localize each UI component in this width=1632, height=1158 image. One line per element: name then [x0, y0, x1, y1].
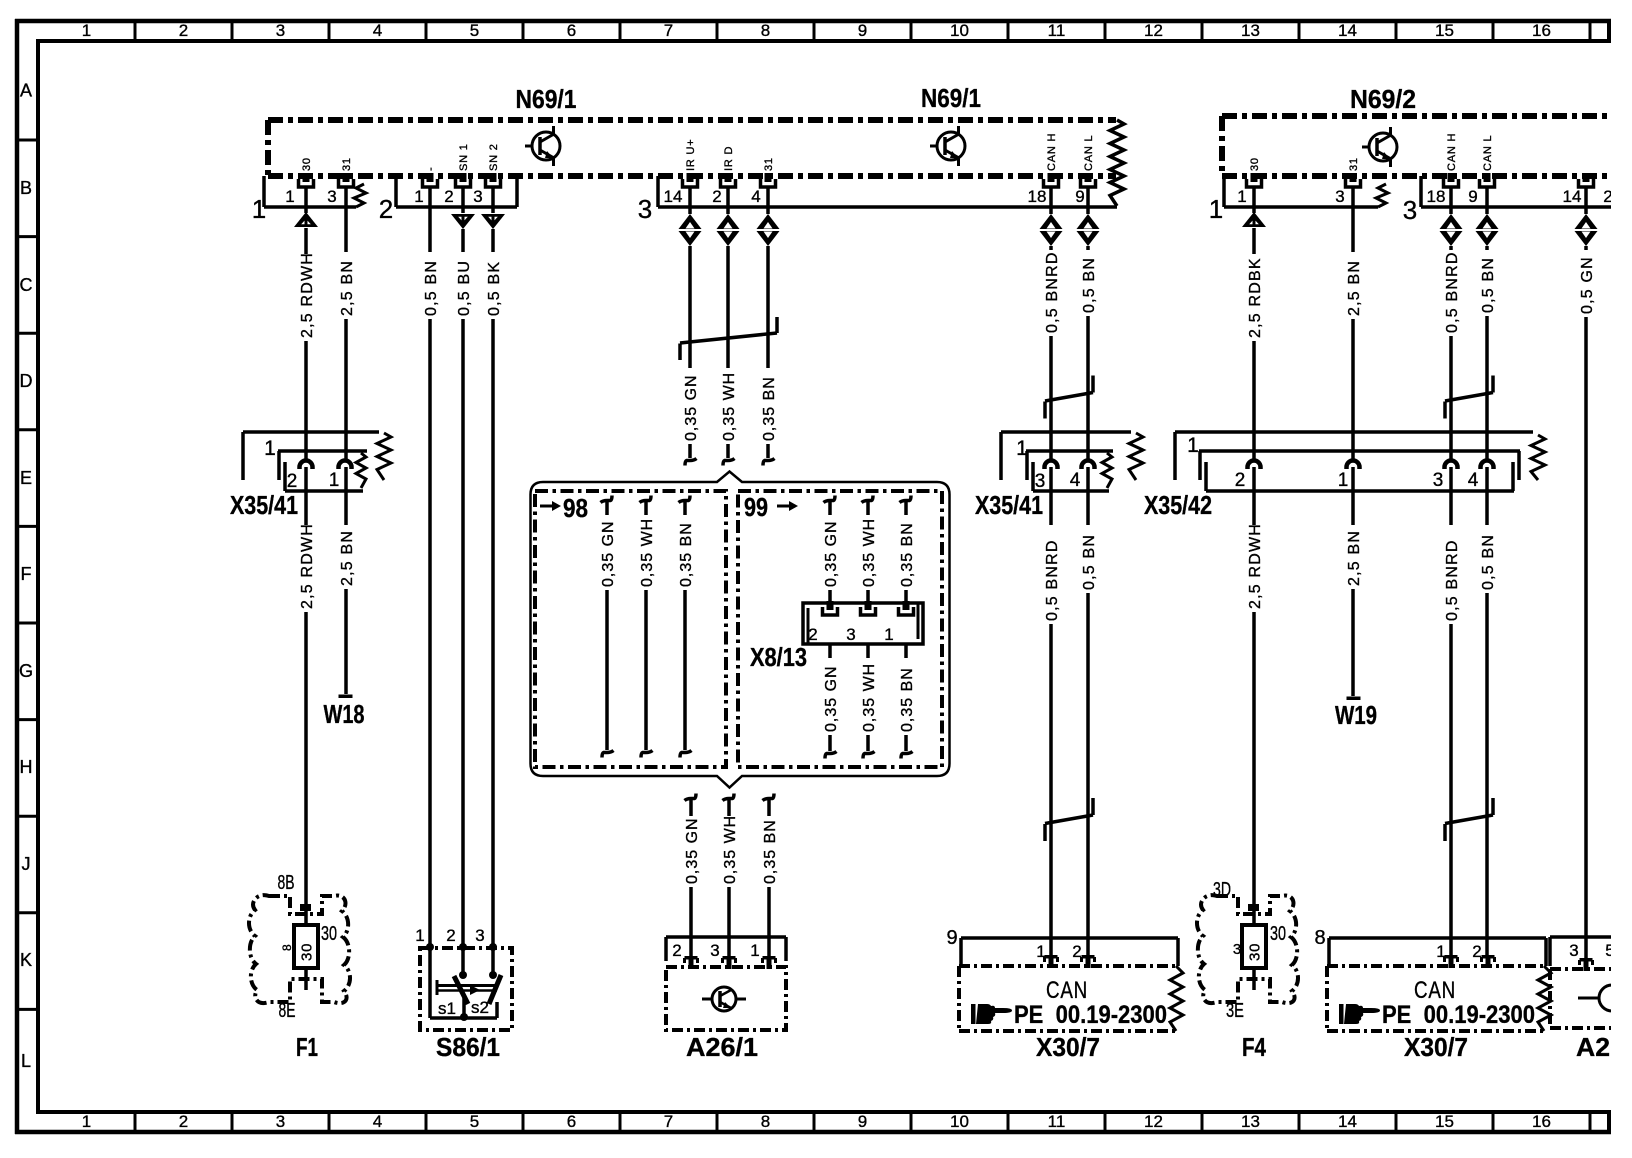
svg-text:2,5 RDWH: 2,5 RDWH — [299, 252, 316, 338]
svg-text:11: 11 — [1048, 1112, 1066, 1131]
svg-text:2,5 RDWH: 2,5 RDWH — [1247, 523, 1264, 609]
svg-text:CAN: CAN — [1414, 977, 1456, 1004]
svg-text:14: 14 — [1338, 1112, 1357, 1131]
svg-text:12: 12 — [1144, 21, 1163, 40]
svg-text:1: 1 — [1209, 194, 1223, 224]
fuse F4 holder (dash-dot cartouche) — [1197, 895, 1298, 1003]
double plug symbol on CAN wire x=1051 — [1040, 214, 1063, 229]
pin hook 2 of X35/41 — [300, 461, 313, 470]
svg-text:14: 14 — [664, 187, 683, 206]
double plug symbol on CAN wire x=1088 — [1077, 214, 1100, 229]
pin terminal SN 1 of N69/1 connector 2 — [460, 173, 467, 182]
wire 0,35 GN from connector 99 to A26/1 — [685, 794, 697, 801]
wire 0,5 BNRD from X35/42 to X30/7 (right) — [1449, 467, 1453, 525]
svg-text:5: 5 — [470, 1112, 479, 1131]
wire 0,5 BN from N69/1 connector 2 pin 1 to S86/1 — [428, 187, 432, 252]
pin 1 of X30/7 left — [1045, 955, 1058, 959]
connector block X35/41 (right) outer bracket — [1001, 432, 1131, 480]
svg-text:0,5 BN: 0,5 BN — [423, 260, 440, 316]
pin 2 of X8/13 — [827, 601, 834, 610]
svg-text:0,35 BN: 0,35 BN — [678, 522, 695, 587]
svg-text:6: 6 — [567, 1112, 576, 1131]
svg-text:1: 1 — [264, 437, 276, 460]
double plug symbol on IR wire x=728 — [717, 214, 740, 229]
svg-text:2: 2 — [808, 625, 817, 644]
svg-text:1: 1 — [1237, 187, 1246, 206]
junction dot bottom — [460, 1013, 468, 1021]
svg-text:9: 9 — [858, 21, 867, 40]
svg-text:F1: F1 — [296, 1032, 318, 1062]
svg-text:18: 18 — [1427, 187, 1446, 206]
svg-text:L: L — [21, 1051, 31, 1071]
loudspeaker symbol inside A2 (clipped) — [1578, 985, 1625, 1011]
wire 0,35 WH from N69/1 pin 2 to connector 98 — [726, 187, 730, 214]
sleeve arrow on wire 30 (N69/2) — [1242, 212, 1266, 227]
svg-text:CAN H: CAN H — [1046, 133, 1058, 171]
svg-text:0,35 BN: 0,35 BN — [761, 376, 778, 441]
wire 0,5 GN from N69/2 pin 14 to A2 — [1584, 187, 1588, 214]
svg-text:10: 10 — [950, 21, 969, 40]
svg-text:2: 2 — [179, 1112, 188, 1131]
wire 0,35 WH inside connector 98 — [640, 496, 652, 503]
wire 0,35 WH from connector 99 to A26/1 — [723, 794, 735, 801]
svg-text:2: 2 — [379, 194, 393, 224]
twisted-pair jog above X35/42 — [1445, 393, 1493, 402]
svg-text:0,35 WH: 0,35 WH — [722, 815, 739, 884]
pin hook 3 of X35/42 — [1445, 461, 1458, 470]
pin 3 of X8/13 — [865, 601, 872, 610]
pin terminal 30 of N69/1 — [303, 173, 310, 182]
svg-text:4: 4 — [751, 187, 760, 206]
fuse F4 element — [1242, 911, 1266, 990]
svg-text:0,35 WH: 0,35 WH — [639, 518, 656, 587]
svg-text:3: 3 — [710, 941, 719, 960]
svg-text:9: 9 — [1468, 187, 1477, 206]
connector 99 box (dash-dot) — [738, 491, 942, 767]
connector 98 box (dash-dot) — [535, 491, 726, 767]
svg-text:2,5 RDWH: 2,5 RDWH — [299, 523, 316, 609]
double plug symbol on IR wire x=768 — [757, 214, 780, 229]
svg-text:3: 3 — [276, 21, 285, 40]
pin 2 of A26/1 — [685, 956, 698, 960]
wire 0,5 BN from N69/2 pin 9 to X35/42 — [1485, 187, 1489, 214]
svg-text:PE 00.19-2300: PE 00.19-2300 — [1014, 1001, 1167, 1029]
svg-text:A2: A2 — [1576, 1032, 1610, 1062]
pin hook 1 of X35/42 — [1347, 461, 1360, 470]
connector 98/99 outer contour with pass-through peaks — [531, 472, 950, 788]
pin hook 4 of X35/41 right — [1082, 461, 1095, 470]
svg-text:14: 14 — [1563, 187, 1582, 206]
wire 2,5 RDWH from X35/41 to fuse F1 — [304, 467, 308, 525]
socket arrows on wires SN1, SN2 — [451, 214, 475, 229]
svg-text:0,5 BK: 0,5 BK — [486, 261, 503, 316]
svg-text:16: 16 — [1532, 21, 1551, 40]
svg-text:X30/7: X30/7 — [1404, 1032, 1468, 1062]
svg-text:4: 4 — [1468, 470, 1479, 491]
svg-text:3: 3 — [846, 625, 855, 644]
coil at X35/41 outer bracket — [377, 433, 391, 480]
svg-text:0,5 BN: 0,5 BN — [1081, 534, 1098, 590]
svg-text:4: 4 — [373, 21, 382, 40]
svg-text:0,35 GN: 0,35 GN — [823, 520, 840, 587]
svg-text:PE 00.19-2300: PE 00.19-2300 — [1382, 1001, 1535, 1029]
svg-text:8E: 8E — [279, 1000, 296, 1022]
svg-text:0,5 BN: 0,5 BN — [1480, 534, 1497, 590]
wire 0,35 BN from connector 99 to A26/1 — [763, 794, 775, 801]
coil inside X35/41 right housing — [1102, 453, 1112, 488]
svg-text:1: 1 — [1338, 470, 1349, 491]
svg-text:H: H — [20, 757, 33, 777]
svg-text:2,5 RDBK: 2,5 RDBK — [1247, 257, 1264, 338]
control unit N69/2 box (dash-dot outline) — [1222, 116, 1615, 176]
pin terminal SN 2 of N69/1 connector 2 — [490, 173, 497, 182]
svg-text:3: 3 — [1335, 187, 1344, 206]
svg-text:N69/1: N69/1 — [516, 84, 577, 114]
svg-text:0,35 GN: 0,35 GN — [684, 817, 701, 884]
svg-text:3: 3 — [475, 926, 484, 945]
labels s1 s2 — [438, 998, 489, 1018]
wire 0,35 BN below X8/13 — [904, 644, 908, 658]
switch S86/1 box (dash-dot) — [420, 948, 512, 1030]
svg-text:2: 2 — [1235, 470, 1246, 491]
svg-text:15: 15 — [1435, 1112, 1454, 1131]
svg-text:3: 3 — [638, 194, 652, 224]
transistor symbol inside N69/2 — [1369, 133, 1397, 161]
svg-text:E: E — [20, 468, 32, 488]
connector 2 of N69/1 (pins 1,2,3) — [379, 176, 517, 224]
svg-text:3: 3 — [1433, 470, 1444, 491]
pin terminal 30 of N69/2 — [1251, 173, 1258, 182]
pin hook 3 of X35/41 right — [1045, 461, 1058, 470]
wire 0,5 BU from N69/1 connector 2 pin 2 to S86/1 — [461, 187, 465, 213]
svg-text:31: 31 — [341, 157, 353, 171]
coil at N69/2 connector 1 right end — [1376, 184, 1388, 207]
pin terminal CAN H of N69/2 — [1448, 173, 1455, 182]
svg-text:30: 30 — [321, 923, 337, 945]
svg-text:2: 2 — [444, 187, 453, 206]
switch blade s1 — [454, 976, 468, 1004]
wire 2,5 BN from X35/41 to ground W18 — [344, 467, 348, 525]
twisted-pair jog on IR wires — [680, 333, 777, 343]
N69/1 right boundary coil (wavy edge) — [1110, 120, 1124, 206]
pin terminal CAN H of N69/1 — [1048, 173, 1055, 182]
svg-text:D: D — [20, 371, 33, 391]
svg-text:14: 14 — [1338, 21, 1357, 40]
svg-text:F: F — [21, 564, 32, 584]
coil at connector 1 right end — [354, 184, 366, 207]
svg-text:s2: s2 — [471, 998, 489, 1017]
svg-text:9: 9 — [858, 1112, 867, 1131]
coil at X35/41 right outer bracket — [1129, 433, 1143, 480]
switch blade s2 — [489, 975, 501, 1004]
svg-text:CAN L: CAN L — [1083, 135, 1095, 171]
junction dot blade s1 — [459, 971, 467, 979]
svg-text:12: 12 — [1144, 1112, 1163, 1131]
svg-text:18: 18 — [1028, 187, 1047, 206]
svg-text:6: 6 — [567, 21, 576, 40]
svg-text:0,35 WH: 0,35 WH — [721, 372, 738, 441]
pin terminal CAN L of N69/2 — [1484, 173, 1491, 182]
svg-text:B: B — [20, 178, 32, 198]
svg-text:A26/1: A26/1 — [686, 1032, 758, 1062]
svg-text:1: 1 — [414, 187, 423, 206]
pin 3 of A26/1 — [723, 956, 736, 960]
svg-text:1: 1 — [82, 1112, 91, 1131]
pin 2 of X30/7 right — [1482, 955, 1495, 959]
connector bracket X30/7 right, pin row 8 — [1314, 927, 1546, 966]
svg-text:30: 30 — [1249, 157, 1261, 171]
svg-text:16: 16 — [1532, 1112, 1551, 1131]
svg-text:30: 30 — [301, 157, 313, 171]
svg-text:N69/1: N69/1 — [921, 83, 981, 113]
svg-text:11: 11 — [1048, 21, 1066, 40]
pin hook 2 of X35/42 — [1248, 461, 1261, 470]
component A2 box (dash-dot, clipped) — [1550, 969, 1615, 1028]
svg-text:10: 10 — [950, 1112, 969, 1131]
S86/1 internal wiring and contact bus — [430, 948, 497, 1018]
double plug symbol on N69/2 wire x=1451 — [1440, 214, 1463, 229]
svg-text:0,5 BN: 0,5 BN — [1480, 257, 1497, 313]
junction dot pin 1 — [426, 943, 434, 951]
svg-text:N69/2: N69/2 — [1350, 84, 1416, 114]
fuse F4 top contact tab — [1248, 904, 1259, 911]
svg-text:4: 4 — [1070, 470, 1081, 491]
connector 1 of N69/1 (pins 1,3) — [252, 176, 356, 224]
pin 1 of X30/7 right — [1445, 955, 1458, 959]
wire 0,5 BN from X35/41 to X30/7 — [1086, 467, 1090, 525]
svg-text:1: 1 — [1187, 434, 1199, 457]
connector 1 of N69/2 (pins 1,3) — [1209, 176, 1378, 224]
svg-text:8: 8 — [280, 944, 294, 951]
fuse F1 element — [294, 911, 318, 990]
svg-text:31: 31 — [763, 157, 775, 171]
svg-text:8: 8 — [761, 21, 770, 40]
wire 0,5 BN from X35/42 to X30/7 (right) — [1485, 467, 1489, 525]
connector X8/13 housing — [803, 603, 923, 644]
twisted-pair jog above X35/41 — [1045, 393, 1093, 402]
pin 3 of A2 — [1580, 958, 1593, 962]
svg-text:S86/1: S86/1 — [436, 1032, 500, 1062]
svg-text:2,5 BN: 2,5 BN — [339, 260, 356, 316]
svg-text:X35/42: X35/42 — [1144, 490, 1212, 520]
svg-text:3D: 3D — [1213, 879, 1231, 901]
svg-text:0,35 WH: 0,35 WH — [861, 663, 878, 732]
pin terminal 31 of N69/1 connector 3 — [765, 173, 772, 182]
wire 0,35 WH inside connector 99 to X8/13 — [862, 496, 874, 503]
connector bracket X30/7 left, pin row 9 — [946, 927, 1178, 966]
svg-text:31: 31 — [1348, 157, 1360, 171]
svg-text:2,5 BN: 2,5 BN — [1346, 530, 1363, 586]
arrow out of connector 99 — [777, 505, 789, 508]
svg-text:CAN L: CAN L — [1482, 135, 1494, 171]
arrow into connector 98 — [540, 505, 552, 508]
svg-text:0,5 BNRD: 0,5 BNRD — [1444, 251, 1461, 333]
svg-text:0,5 GN: 0,5 GN — [1579, 256, 1596, 314]
wavy right edge of X30/7 left — [1170, 966, 1183, 1031]
pin terminal 31 of N69/2 — [1350, 173, 1357, 182]
component A26/1 box (dash-dot) — [666, 967, 786, 1030]
svg-text:0,5 BU: 0,5 BU — [456, 260, 473, 316]
svg-text:C: C — [20, 275, 33, 295]
svg-text:J: J — [22, 854, 31, 874]
svg-text:W19: W19 — [1335, 700, 1377, 730]
double plug symbol on IR wire x=690 — [679, 214, 702, 229]
wavy right edge of X30/7 right — [1538, 966, 1551, 1031]
pin 1 of A26/1 — [763, 956, 776, 960]
connector 3 of N69/1 (pins 14,2,4 and 18,9) — [638, 176, 1117, 224]
connector block X35/42 housing with pins 2,1,3,4 — [1199, 451, 1520, 491]
junction dot blade s2 — [489, 971, 497, 979]
svg-text:CAN H: CAN H — [1446, 133, 1458, 171]
svg-text:1: 1 — [329, 470, 340, 491]
connector block X35/41 (right) housing with pins 3,4 — [1026, 451, 1113, 492]
svg-text:K: K — [20, 950, 32, 970]
pin terminal CAN L of N69/1 — [1085, 173, 1092, 182]
svg-text:1: 1 — [82, 21, 91, 40]
fuse F1 holder (dash-dot cartouche) — [249, 895, 350, 1003]
wire 0,5 BNRD from X35/41 to X30/7 — [1049, 467, 1053, 525]
svg-text:SN 2: SN 2 — [488, 143, 500, 171]
transistor symbol inside N69/1 (left) — [532, 132, 560, 160]
wire 0,35 WH below X8/13 — [866, 644, 870, 658]
S86/1 pin numbers 1,2,3 — [415, 926, 484, 945]
pointing hand icon (left box) — [971, 1004, 1012, 1024]
svg-text:3: 3 — [473, 187, 482, 206]
svg-text:0,5 BN: 0,5 BN — [1081, 257, 1098, 313]
pin hook 1 of X35/41 — [339, 461, 352, 470]
svg-text:13: 13 — [1241, 1112, 1260, 1131]
transistor symbol inside N69/1 (right) — [937, 132, 965, 160]
double plug symbol on N69/2 wire x=1586 — [1575, 214, 1598, 229]
svg-text:9: 9 — [946, 927, 957, 949]
connector block X35/41 (left) housing with pins 2,1 — [278, 451, 367, 492]
svg-text:1: 1 — [884, 625, 893, 644]
svg-text:F4: F4 — [1242, 1032, 1266, 1062]
svg-text:X35/41: X35/41 — [975, 490, 1043, 520]
svg-text:2,5 BN: 2,5 BN — [339, 530, 356, 586]
svg-text:3: 3 — [276, 1112, 285, 1131]
svg-text:X35/41: X35/41 — [230, 490, 298, 520]
svg-text:X30/7: X30/7 — [1036, 1032, 1100, 1062]
svg-text:0,35 GN: 0,35 GN — [600, 520, 617, 587]
wire 0,35 GN inside connector 98 — [601, 496, 613, 503]
svg-text:X8/13: X8/13 — [750, 642, 807, 672]
svg-text:0,5 BNRD: 0,5 BNRD — [1044, 251, 1061, 333]
pin 1 of X8/13 — [903, 601, 910, 610]
svg-text:3: 3 — [1035, 471, 1046, 492]
connector bracket of A2 with pins 3,5 — [1550, 937, 1615, 966]
svg-text:30: 30 — [298, 943, 315, 961]
svg-text:2: 2 — [287, 471, 298, 492]
wire 2,5 BN from X35/42 to ground W19 — [1351, 467, 1355, 525]
svg-text:4: 4 — [373, 1112, 382, 1131]
wire 0,5 BN from N69/1 pin 9 to X35/41 — [1086, 187, 1090, 214]
svg-text:30: 30 — [1270, 923, 1286, 945]
wire 0,35 GN from N69/1 pin 14 to connector 98 — [688, 187, 692, 214]
svg-text:7: 7 — [664, 21, 673, 40]
ground connector W19 — [1347, 697, 1361, 701]
svg-text:0,35 WH: 0,35 WH — [861, 518, 878, 587]
svg-text:CAN: CAN — [1046, 977, 1088, 1004]
junction dot pin 3 — [489, 943, 497, 951]
svg-text:SN 1: SN 1 — [458, 143, 470, 171]
wire 0,5 BNRD from N69/1 pin 18 to X35/41 — [1049, 187, 1053, 214]
wire 2,5 RDWH from N69/1 pin 1 to X35/41 — [304, 187, 308, 213]
CAN junction box X30/7 (left, dash-dot) — [959, 966, 1176, 1031]
control unit N69/1 box (dash-dot outline) — [268, 120, 1116, 176]
svg-text:0,35 GN: 0,35 GN — [683, 374, 700, 441]
svg-text:2: 2 — [712, 187, 721, 206]
svg-text:8B: 8B — [278, 872, 295, 894]
coil at X35/42 outer bracket — [1531, 435, 1545, 480]
wire 0,35 GN below X8/13 — [828, 644, 832, 658]
pin terminal 14 of N69/2 — [1583, 173, 1590, 182]
svg-text:2: 2 — [179, 21, 188, 40]
junction dot pin 2 — [459, 943, 467, 951]
wire 2,5 RDWH from X35/42 to fuse F4 — [1252, 467, 1256, 525]
fuse F1 top contact tab — [300, 904, 311, 911]
svg-text:8: 8 — [761, 1112, 770, 1131]
coil inside X35/41 housing — [356, 453, 366, 488]
svg-text:W18: W18 — [324, 699, 365, 729]
wire 2,5 BN from N69/1 pin 3 to X35/41 — [344, 187, 348, 252]
svg-text:2: 2 — [446, 926, 455, 945]
pin terminal IR U+ of N69/1 connector 3 — [687, 173, 694, 182]
wire 2,5 RDBK from N69/2 pin 1 to X35/42 — [1252, 187, 1256, 213]
pin hook 4 of X35/42 — [1481, 461, 1494, 470]
connector bracket of A26/1 with pins 2,3,1 — [666, 937, 786, 961]
pointing hand icon (right box) — [1339, 1004, 1380, 1024]
svg-text:1: 1 — [252, 194, 266, 224]
wire 0,35 BN from N69/1 pin 4 to connector 98 — [766, 187, 770, 214]
svg-text:0,35 BN: 0,35 BN — [899, 667, 916, 732]
svg-text:3: 3 — [1403, 195, 1417, 225]
svg-text:5: 5 — [470, 21, 479, 40]
svg-text:0,35 BN: 0,35 BN — [899, 522, 916, 587]
svg-text:1: 1 — [415, 926, 424, 945]
wire 2,5 BN from N69/2 pin 3 to X35/42 — [1351, 187, 1355, 252]
svg-text:15: 15 — [1435, 21, 1454, 40]
pin terminal 31 of N69/1 — [343, 173, 350, 182]
svg-text:s1: s1 — [438, 999, 456, 1018]
double plug symbol on N69/2 wire x=1487 — [1476, 214, 1499, 229]
sleeve arrow on wire 30 (N69/1) — [294, 212, 318, 227]
svg-text:7: 7 — [664, 1112, 673, 1131]
svg-text:9: 9 — [1075, 187, 1084, 206]
connector block X35/41 (left) outer bracket — [243, 432, 379, 480]
twisted-pair jog above X30/7 (right) — [1445, 815, 1493, 824]
wire 0,35 BN inside connector 99 to X8/13 — [900, 496, 912, 503]
transistor symbol inside A26/1 — [712, 987, 736, 1011]
svg-text:30: 30 — [1246, 943, 1263, 961]
svg-text:-: - — [425, 167, 437, 171]
wire 0,5 BK from N69/1 connector 2 pin 3 to S86/1 — [491, 187, 495, 213]
svg-text:G: G — [19, 661, 33, 681]
svg-text:1: 1 — [285, 187, 294, 206]
wire 0,35 BN inside connector 98 — [679, 496, 691, 503]
svg-text:8: 8 — [1314, 927, 1325, 949]
svg-text:0,5 BNRD: 0,5 BNRD — [1044, 539, 1061, 621]
svg-text:3: 3 — [1233, 941, 1241, 958]
wire 0,5 BNRD from N69/2 pin 18 to X35/42 — [1449, 187, 1453, 214]
ground connector W18 — [339, 695, 353, 699]
svg-text:2: 2 — [672, 941, 681, 960]
svg-text:3E: 3E — [1226, 1000, 1244, 1022]
svg-text:13: 13 — [1241, 21, 1260, 40]
CAN junction box X30/7 (right, dash-dot) — [1327, 966, 1544, 1031]
wire 0,35 GN inside connector 99 to X8/13 — [824, 496, 836, 503]
pin 2 of X30/7 left — [1082, 955, 1095, 959]
